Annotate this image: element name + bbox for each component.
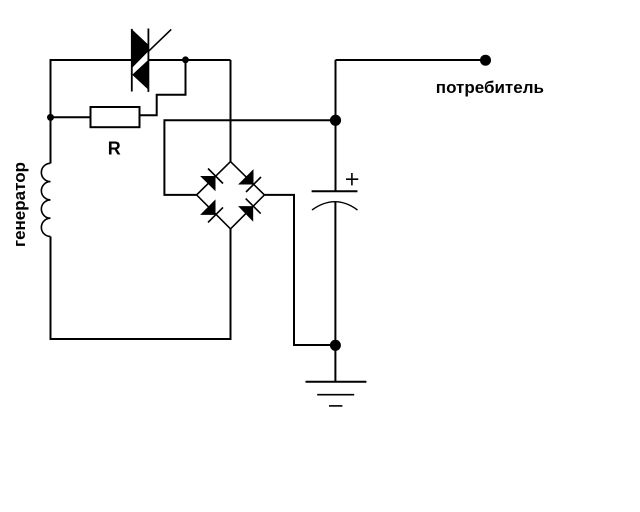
- ground bar 1: [306, 381, 367, 383]
- wire bottom horizontal: [50, 338, 231, 340]
- wire generator left vertical upper: [50, 59, 52, 163]
- svg-text:потребитель: потребитель: [436, 78, 544, 97]
- diode bottom-left cathode bar: [208, 207, 223, 222]
- svg-text:генератор: генератор: [10, 162, 29, 247]
- ground bar 3: [329, 405, 342, 407]
- diode bottom-left triangle: [200, 199, 215, 215]
- node junction generator-resistor: [47, 114, 54, 121]
- wire top right to consumer terminal: [336, 59, 482, 61]
- wire bridge top riser: [230, 60, 232, 162]
- capacitor top plate: [312, 190, 358, 192]
- triac upper triangle: [132, 29, 149, 68]
- diode top-left cathode bar: [208, 169, 223, 184]
- diode top-right cathode bar: [246, 177, 261, 192]
- svg-text:R: R: [108, 139, 121, 159]
- wire junction to resistor: [51, 116, 91, 118]
- node consumer terminal: [480, 55, 491, 66]
- diode top-right triangle: [238, 169, 253, 184]
- ground bar 2: [317, 394, 354, 396]
- diode top-left triangle: [200, 176, 215, 191]
- wire generator left vertical lower: [50, 237, 52, 340]
- triac left terminal line: [131, 29, 133, 92]
- wire capacitor top vertical: [335, 60, 337, 191]
- node junction ground: [330, 340, 341, 351]
- triac right terminal line: [147, 29, 149, 92]
- wire top-left horizontal (generator top to triac): [51, 59, 132, 61]
- wire bridge bottom riser: [230, 229, 232, 340]
- diode bottom-right triangle: [238, 206, 253, 222]
- wire capacitor bottom vertical: [334, 202, 336, 345]
- capacitor curved bottom plate: [312, 202, 358, 210]
- diode bridge diamond: [197, 162, 265, 229]
- node junction triac-gate on top wire: [182, 56, 189, 63]
- wire top middle (triac to bridge riser): [148, 59, 230, 61]
- wire bridge right vertex down to ground node: [264, 195, 335, 345]
- capacitor plus sign: [346, 173, 358, 185]
- resistor R: [91, 107, 140, 127]
- triac lower triangle: [132, 60, 148, 90]
- diode bottom-right cathode bar: [246, 199, 261, 214]
- node junction capacitor top: [330, 115, 341, 126]
- wire ground stem: [334, 345, 336, 382]
- wire bridge left vertex to capacitor node: [164, 120, 335, 195]
- triac gate line: [149, 29, 172, 51]
- wire staircase resistor to triac gate node: [140, 60, 186, 115]
- inductor generator winding: [41, 163, 50, 236]
